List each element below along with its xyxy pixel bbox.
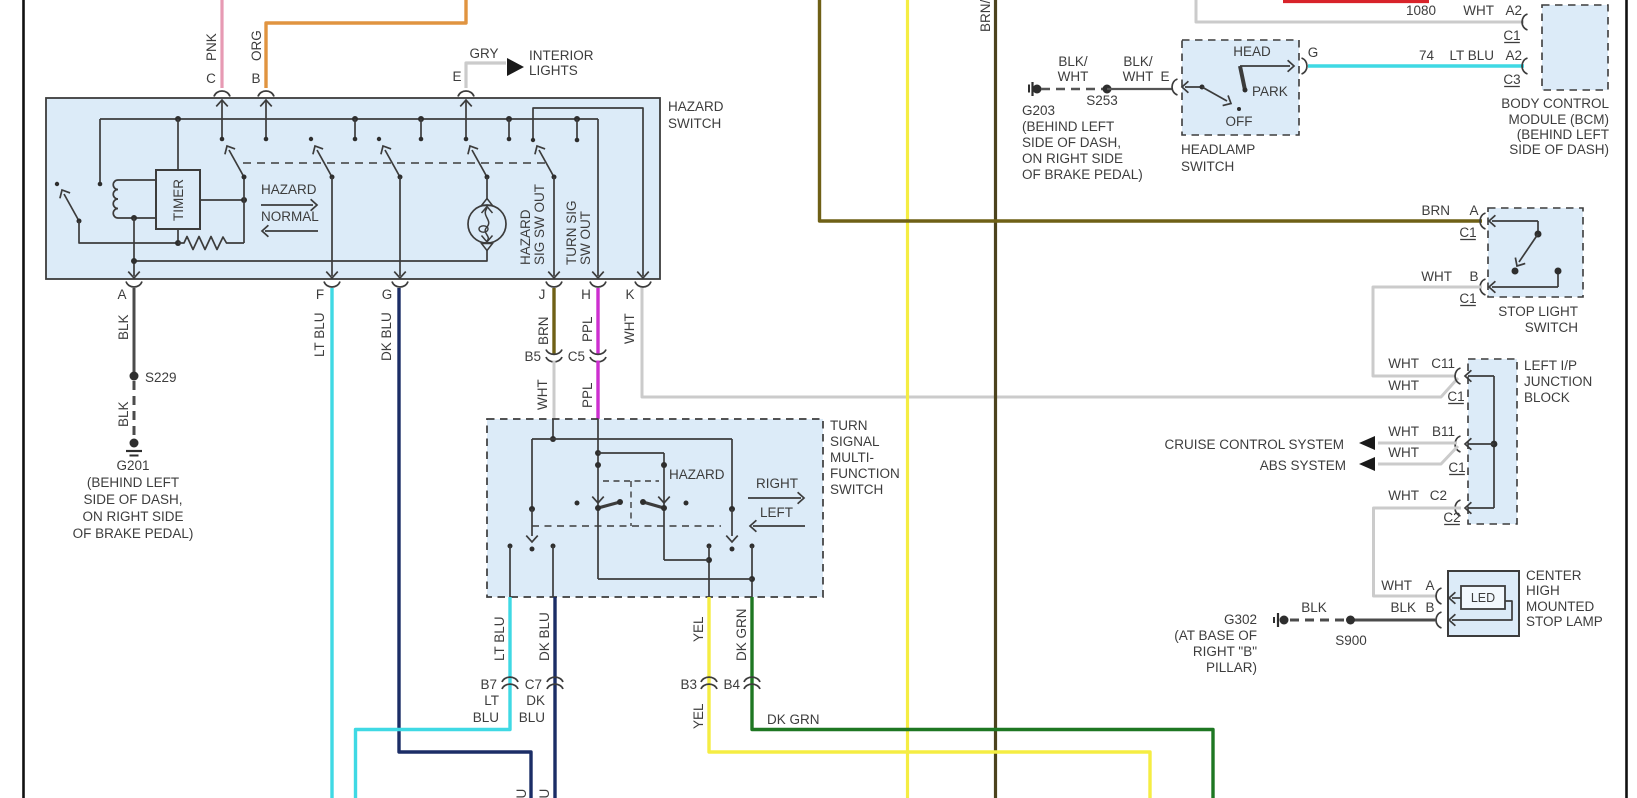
svg-text:S900: S900 <box>1335 633 1367 648</box>
svg-text:TURN SIG: TURN SIG <box>564 200 579 265</box>
pole5 lever <box>539 150 554 177</box>
output lead lt blu <box>509 546 511 597</box>
bus junction dots <box>175 116 181 122</box>
svg-text:WHT: WHT <box>535 379 550 410</box>
svg-text:HEADLAMP: HEADLAMP <box>1181 142 1255 157</box>
svg-text:H: H <box>581 287 591 302</box>
wire YEL from B3 right-down <box>709 694 1150 798</box>
wire PPL from pin H <box>596 288 599 355</box>
svg-text:G302: G302 <box>1224 612 1257 627</box>
connector BCM C1 <box>1522 14 1527 30</box>
wire WHT to cruise control <box>1378 442 1457 445</box>
svg-text:BLK: BLK <box>1390 600 1416 615</box>
svg-text:B4: B4 <box>723 677 740 692</box>
connector pin E <box>458 91 474 96</box>
svg-text:BODY CONTROL: BODY CONTROL <box>1501 96 1609 111</box>
svg-text:(BEHIND LEFT: (BEHIND LEFT <box>1022 119 1114 134</box>
off lever arrow <box>1202 87 1227 101</box>
left lever <box>598 502 620 508</box>
wire resistor to pole1 common <box>243 177 245 243</box>
pole3 wire down to pin G <box>399 177 401 276</box>
connector pin A <box>126 282 142 287</box>
svg-text:SIDE OF DASH,: SIDE OF DASH, <box>83 492 182 507</box>
pole4 lever (illumination) <box>472 150 487 177</box>
pin E lead with up arrow <box>460 100 472 106</box>
svg-text:TIMER: TIMER <box>171 179 186 221</box>
output lead dk grn <box>751 546 753 597</box>
wire BLK dashed to ground <box>133 381 136 438</box>
connector pin C <box>214 91 230 96</box>
svg-text:HAZARD: HAZARD <box>668 99 724 114</box>
svg-text:DK GRN: DK GRN <box>734 608 749 661</box>
svg-text:DK BLU: DK BLU <box>537 612 552 661</box>
head contact wire to G <box>1240 65 1290 67</box>
left wiper arrow <box>531 509 533 536</box>
svg-text:LIGHTS: LIGHTS <box>529 63 578 78</box>
svg-text:YEL: YEL <box>691 703 706 729</box>
svg-text:PILLAR): PILLAR) <box>1206 660 1257 675</box>
svg-text:A2: A2 <box>1505 3 1522 18</box>
wire YEL output <box>707 597 710 694</box>
svg-text:B5: B5 <box>524 349 541 364</box>
bus stub contact pole2 <box>354 119 356 139</box>
pole3 lever <box>385 150 400 177</box>
svg-text:YEL: YEL <box>691 616 706 642</box>
bus stub contact pole3 <box>420 119 422 139</box>
svg-text:LED: LED <box>1471 591 1495 605</box>
svg-text:SIGNAL: SIGNAL <box>830 434 880 449</box>
svg-text:C2: C2 <box>1443 510 1460 525</box>
svg-text:WHT: WHT <box>1388 378 1419 393</box>
pole3 contact dot <box>377 137 381 141</box>
svg-text:STOP LAMP: STOP LAMP <box>1526 614 1603 629</box>
timer right lead <box>200 199 244 201</box>
svg-text:PPL: PPL <box>580 382 595 408</box>
svg-text:WHT: WHT <box>1388 445 1419 460</box>
svg-text:B: B <box>1469 269 1478 284</box>
svg-text:E: E <box>452 69 461 84</box>
svg-text:74: 74 <box>1419 48 1435 63</box>
inline connector C7 <box>547 677 563 682</box>
svg-text:B3: B3 <box>680 677 697 692</box>
connector pin F <box>324 282 340 287</box>
svg-text:WHT: WHT <box>1381 578 1412 593</box>
right lever feed arrow <box>658 497 670 503</box>
svg-text:A: A <box>117 287 126 302</box>
splice S229 <box>130 372 139 381</box>
svg-text:WHT: WHT <box>1388 488 1419 503</box>
svg-text:OF BRAKE PEDAL): OF BRAKE PEDAL) <box>1022 167 1143 182</box>
svg-text:LT BLU: LT BLU <box>312 312 327 357</box>
wire WHT to abs <box>1378 446 1458 464</box>
inline connector B4 <box>744 677 760 682</box>
wire WHT C2 to stop lamp A <box>1374 508 1462 596</box>
hazard feed cross wire <box>598 452 664 454</box>
svg-text:S229: S229 <box>145 370 177 385</box>
svg-text:RIGHT "B": RIGHT "B" <box>1193 644 1257 659</box>
svg-text:BLK: BLK <box>1301 600 1327 615</box>
pole1 changeover lever (hazard/normal) <box>229 150 244 177</box>
pin C11 arrow <box>1468 375 1494 377</box>
svg-text:BRN: BRN <box>536 316 551 345</box>
svg-text:J: J <box>539 287 546 302</box>
turn signal multi-function switch box <box>487 419 823 597</box>
svg-text:GRY: GRY <box>469 46 498 61</box>
svg-text:PPL: PPL <box>580 316 595 342</box>
relay switch lever <box>64 194 79 221</box>
left wiper drop <box>531 439 533 509</box>
svg-text:BLK: BLK <box>116 314 131 340</box>
connector stop light A <box>1480 213 1485 229</box>
wire wht entry lead <box>552 419 554 439</box>
svg-text:HEAD: HEAD <box>1233 44 1271 59</box>
bus end down to pin H <box>597 119 599 276</box>
connector pin B <box>1436 612 1441 628</box>
svg-text:MULTI-: MULTI- <box>830 450 874 465</box>
wire BRN trunk to stop light switch <box>820 0 1483 221</box>
LED return to pin B <box>1452 601 1512 620</box>
page border left <box>22 0 25 798</box>
hazard to yel link <box>664 559 709 561</box>
wire yellow trunk vertical <box>906 0 909 798</box>
wire GRY from pin E to interior lights <box>466 63 506 88</box>
LED element box <box>1461 586 1505 609</box>
svg-text:WHT: WHT <box>1421 269 1452 284</box>
center high mounted stop lamp box <box>1448 571 1519 636</box>
timer bottom lead <box>177 229 179 243</box>
svg-text:BRN/: BRN/ <box>978 0 993 32</box>
wire BLK/WHT to headlamp switch <box>1107 88 1172 90</box>
wire LT BLU circuit 74 to BCM <box>1308 64 1524 67</box>
svg-text:WHT: WHT <box>622 313 637 344</box>
wire DK BLU from pin G <box>399 288 531 798</box>
svg-text:A2: A2 <box>1505 48 1522 63</box>
svg-text:LEFT I/P: LEFT I/P <box>1524 358 1577 373</box>
svg-text:CRUISE CONTROL SYSTEM: CRUISE CONTROL SYSTEM <box>1164 437 1344 452</box>
right wiper arrow <box>731 509 733 536</box>
inline connector C5 <box>590 350 606 355</box>
connector B11 <box>1455 436 1460 452</box>
svg-text:ON RIGHT SIDE: ON RIGHT SIDE <box>82 509 183 524</box>
svg-text:HAZARD: HAZARD <box>261 182 317 197</box>
junction internal bus <box>1493 376 1495 508</box>
svg-text:B11: B11 <box>1432 424 1455 439</box>
arrow abs system <box>1359 457 1375 471</box>
wire RED stub <box>1283 0 1429 3</box>
pin C2 arrow <box>1468 507 1494 509</box>
arrow normal left <box>265 230 318 232</box>
pin B11 arrow <box>1468 443 1494 445</box>
body control module box <box>1542 5 1608 90</box>
svg-text:1080: 1080 <box>1406 3 1436 18</box>
headlamp lever <box>1240 66 1245 90</box>
svg-text:SIDE OF DASH): SIDE OF DASH) <box>1509 142 1609 157</box>
svg-text:LT BLU: LT BLU <box>1449 48 1494 63</box>
svg-text:PNK: PNK <box>204 33 219 61</box>
wire relay common to resistor node <box>79 221 178 243</box>
svg-text:K: K <box>625 287 634 302</box>
right wiper drop <box>731 439 733 509</box>
svg-text:C1: C1 <box>1459 291 1476 306</box>
contact dot right <box>684 501 689 506</box>
svg-text:G: G <box>382 287 393 302</box>
svg-text:DK BLU: DK BLU <box>379 312 394 361</box>
wire WHT from pin K to junction block C11 <box>642 288 1458 397</box>
wire LT BLU from B7 down-left <box>356 694 511 798</box>
svg-text:SIG SW OUT: SIG SW OUT <box>532 184 547 265</box>
svg-text:WHT: WHT <box>1058 69 1089 84</box>
headlamp switch box <box>1182 40 1299 135</box>
wire ppl entry vertical <box>597 419 599 579</box>
svg-text:A: A <box>1425 578 1434 593</box>
inline connector B5 <box>546 350 562 355</box>
svg-text:BLK: BLK <box>116 401 131 427</box>
svg-text:A: A <box>1469 203 1478 218</box>
svg-text:E: E <box>1160 69 1169 84</box>
wire DK BLU output <box>553 597 556 694</box>
timer U1 box <box>156 170 200 229</box>
arrow cruise control system <box>1359 436 1375 450</box>
svg-text:SWITCH: SWITCH <box>1181 159 1234 174</box>
wire LT BLU from pin F <box>330 288 333 798</box>
connector pin H <box>590 282 606 287</box>
inline connector B7 <box>502 677 518 682</box>
svg-text:MODULE (BCM): MODULE (BCM) <box>1509 112 1610 127</box>
svg-text:C1: C1 <box>1447 389 1464 404</box>
contact dot left <box>575 501 580 506</box>
mechanical link dashed <box>243 162 545 164</box>
wire DK GRN output <box>750 597 753 694</box>
svg-text:OFF: OFF <box>1226 114 1253 129</box>
right feed vertical <box>663 453 665 560</box>
svg-text:C7: C7 <box>525 677 542 692</box>
svg-text:BRN: BRN <box>1421 203 1450 218</box>
wire PPL from C5 to turn signal switch <box>596 361 599 421</box>
wire WHT circuit 1080 to BCM <box>1196 0 1524 22</box>
svg-text:HIGH: HIGH <box>1526 583 1560 598</box>
svg-text:B7: B7 <box>480 677 497 692</box>
wire BLK dashed to ground G302 <box>1290 619 1346 622</box>
svg-text:SWITCH: SWITCH <box>1525 320 1578 335</box>
inline connector B3 <box>701 677 717 682</box>
svg-text:ON RIGHT SIDE: ON RIGHT SIDE <box>1022 151 1123 166</box>
output lead dk blu <box>552 546 554 597</box>
connector BCM C3 <box>1522 58 1527 74</box>
hazard switch box <box>46 98 660 279</box>
svg-text:S253: S253 <box>1086 93 1118 108</box>
svg-text:LEFT: LEFT <box>760 505 793 520</box>
connector pin A <box>1436 588 1441 604</box>
svg-text:STOP LIGHT: STOP LIGHT <box>1498 304 1578 319</box>
svg-text:F: F <box>316 287 324 302</box>
internal supply bus <box>100 118 598 120</box>
wire pole4 to lamp <box>486 177 488 200</box>
splice S900 <box>1346 616 1355 625</box>
svg-text:(BEHIND LEFT: (BEHIND LEFT <box>87 475 179 490</box>
coil top lead <box>118 179 156 181</box>
svg-text:WHT: WHT <box>1388 424 1419 439</box>
right lever <box>643 502 664 508</box>
page border right <box>1625 0 1628 798</box>
svg-text:BLOCK: BLOCK <box>1524 390 1570 405</box>
svg-text:PARK: PARK <box>1252 84 1288 99</box>
pole2 wire down to pin F <box>331 177 333 276</box>
svg-text:WHT: WHT <box>1463 3 1494 18</box>
wire coil node to pin A <box>133 218 135 276</box>
pin B lead with up arrow <box>260 100 272 106</box>
svg-text:OF BRAKE PEDAL): OF BRAKE PEDAL) <box>73 526 194 541</box>
svg-text:C1: C1 <box>1459 225 1476 240</box>
svg-text:C: C <box>206 71 216 86</box>
pole5 contact to pin K link <box>533 108 643 276</box>
mechanical link dashed lines <box>603 480 659 482</box>
svg-text:C1: C1 <box>1503 28 1520 43</box>
stop light lever <box>1519 234 1538 262</box>
svg-text:WHT: WHT <box>1123 69 1154 84</box>
wire WHT stop light B to junction block C11 <box>1373 287 1482 376</box>
left I/P junction block box <box>1468 359 1517 524</box>
svg-text:DK GRN: DK GRN <box>767 712 820 727</box>
ground G201 <box>130 439 139 448</box>
ground G302 <box>1273 617 1275 623</box>
svg-text:B: B <box>251 71 260 86</box>
wire DK BLU from C7 down <box>553 694 556 798</box>
output lead yel <box>708 546 710 597</box>
svg-text:BLU: BLU <box>519 710 545 725</box>
svg-text:C1: C1 <box>1448 460 1465 475</box>
connector pin G <box>1302 58 1307 74</box>
svg-text:TURN: TURN <box>830 418 868 433</box>
svg-text:C5: C5 <box>568 349 585 364</box>
wire lamp return to pin A line <box>134 250 487 261</box>
bus left drop to relay contact <box>99 119 101 184</box>
svg-text:CENTER: CENTER <box>1526 568 1582 583</box>
wire BRN from pin J <box>552 288 555 355</box>
arrow to interior lights <box>507 58 524 76</box>
svg-text:SWITCH: SWITCH <box>830 482 883 497</box>
relay switch contact dot <box>55 182 59 186</box>
connector pin G <box>392 282 408 287</box>
bus stub contact pole5 <box>576 119 578 140</box>
timer top lead to bus <box>177 119 179 170</box>
svg-text:C2: C2 <box>1430 488 1447 503</box>
svg-text:DK BLU: DK BLU <box>514 789 529 798</box>
left lever feed arrow <box>592 497 604 503</box>
arrow hazard right <box>261 204 313 206</box>
svg-text:DK: DK <box>526 693 545 708</box>
pole2 lever <box>317 150 332 177</box>
svg-text:WHT: WHT <box>1388 356 1419 371</box>
ground G203 <box>1028 85 1030 93</box>
wire ORG to pin B <box>266 0 466 88</box>
bus stub contact pole4 <box>508 119 510 139</box>
svg-text:G203: G203 <box>1022 103 1055 118</box>
svg-text:G: G <box>1308 45 1319 60</box>
pin E arrow <box>1185 86 1202 88</box>
wire DK GRN from B4 right-down <box>752 694 1213 798</box>
svg-text:(BEHIND LEFT: (BEHIND LEFT <box>1517 127 1609 142</box>
splice S253 <box>1103 85 1112 94</box>
coil bottom lead <box>118 217 156 219</box>
resistor R1 <box>178 237 244 250</box>
svg-text:FUNCTION: FUNCTION <box>830 466 900 481</box>
stop light switch box <box>1488 208 1583 297</box>
svg-text:HAZARD: HAZARD <box>669 467 725 482</box>
wire BLK from pin A <box>133 288 136 376</box>
svg-text:HAZARD: HAZARD <box>518 209 533 265</box>
svg-text:NORMAL: NORMAL <box>261 209 319 224</box>
connector C11 <box>1455 368 1460 384</box>
flasher coil <box>113 180 118 218</box>
svg-text:SIDE OF DASH,: SIDE OF DASH, <box>1022 135 1121 150</box>
connector pin K <box>635 282 651 287</box>
svg-text:JUNCTION: JUNCTION <box>1524 374 1592 389</box>
illumination lamp <box>468 205 506 243</box>
svg-text:SWITCH: SWITCH <box>668 116 721 131</box>
svg-text:(AT BASE OF: (AT BASE OF <box>1174 628 1257 643</box>
svg-text:DK BLU: DK BLU <box>537 789 552 798</box>
connector pin E <box>1172 79 1177 95</box>
pole5 wire down to pin J <box>553 177 555 276</box>
svg-text:ABS SYSTEM: ABS SYSTEM <box>1260 458 1346 473</box>
svg-text:C3: C3 <box>1503 72 1520 87</box>
pin A arrow and common <box>1492 220 1510 222</box>
svg-text:BLK/: BLK/ <box>1123 54 1153 69</box>
ppl to dk grn link <box>598 578 752 580</box>
wire BLK/WHT dashed from ground <box>1041 88 1103 91</box>
wire PNK to pin C <box>220 0 223 88</box>
pin B arrow and contact <box>1492 286 1558 288</box>
svg-text:INTERIOR: INTERIOR <box>529 48 594 63</box>
wire WHT from B5 to turn signal switch <box>553 361 556 421</box>
wire BLK from stop lamp B to S900 <box>1354 619 1437 622</box>
svg-text:C11: C11 <box>1431 356 1455 371</box>
pin C lead with up arrow <box>216 100 228 106</box>
connector C2 <box>1455 500 1460 516</box>
svg-text:SW OUT: SW OUT <box>578 211 593 265</box>
svg-text:MOUNTED: MOUNTED <box>1526 599 1594 614</box>
connector stop light B <box>1480 279 1485 295</box>
pole2 contact dot <box>309 137 313 141</box>
svg-text:BLU: BLU <box>473 710 499 725</box>
svg-text:G201: G201 <box>116 458 149 473</box>
output contacts <box>508 544 513 549</box>
svg-text:B: B <box>1425 600 1434 615</box>
svg-text:RIGHT: RIGHT <box>756 476 798 491</box>
internal feed bus <box>532 438 732 440</box>
svg-text:LT BLU: LT BLU <box>492 616 507 661</box>
pin A arrow to LED <box>1452 597 1461 599</box>
svg-text:ORG: ORG <box>249 30 264 61</box>
wire BRN/WHT trunk vertical <box>994 0 997 798</box>
wire LT BLU output <box>508 597 511 694</box>
connector pin B <box>258 91 274 96</box>
connector pin J <box>546 282 562 287</box>
svg-text:BLK/: BLK/ <box>1058 54 1088 69</box>
svg-text:LT: LT <box>484 693 499 708</box>
